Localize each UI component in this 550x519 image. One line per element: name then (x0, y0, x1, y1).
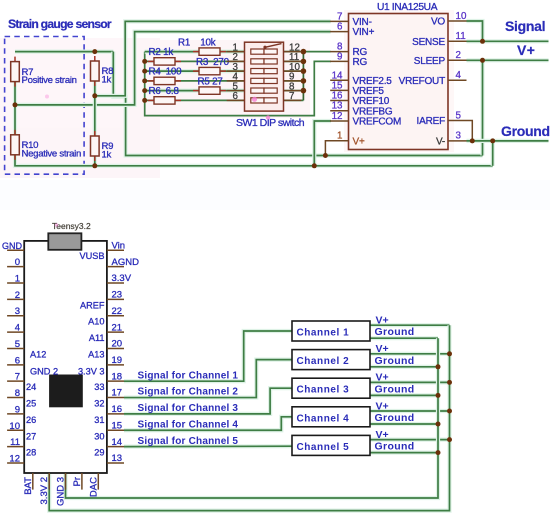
wire RG1 bus right vertical (302, 52, 304, 101)
svg-text:VIN+: VIN+ (353, 27, 375, 38)
wire VREFCOM to ground (314, 121, 331, 166)
pin 9 left (7, 413, 24, 415)
pin Vin right (107, 249, 124, 251)
wire R7 to R10 (13, 81, 17, 134)
svg-text:28: 28 (26, 448, 36, 458)
svg-text:31: 31 (94, 415, 104, 425)
svg-text:8: 8 (15, 388, 20, 399)
strain gauge sensor dashed box (5, 37, 85, 175)
pin 2 left (7, 298, 24, 300)
wire signal channel 5 (124, 444, 292, 449)
pin 12 left (7, 462, 24, 464)
svg-text:5: 5 (456, 110, 462, 121)
wire VIN+ from R7/R10 node (15, 32, 331, 105)
wire signal channel 4 (124, 417, 292, 430)
junction R9 bottom ground (92, 163, 97, 168)
svg-text:R3 270: R3 270 (196, 57, 230, 68)
svg-text:V+: V+ (517, 42, 535, 58)
svg-text:1: 1 (15, 274, 20, 285)
svg-text:V+: V+ (376, 315, 389, 327)
wire V+ vertical drop (480, 60, 484, 155)
svg-text:12: 12 (332, 111, 343, 122)
connector Channel 3 (292, 378, 370, 398)
svg-text:12: 12 (9, 453, 20, 464)
svg-text:GND: GND (2, 241, 23, 251)
wire rail 3 (145, 69, 245, 73)
wire rail 6 (145, 99, 245, 101)
svg-text:1k: 1k (102, 150, 112, 161)
junction resistor bus (142, 69, 147, 74)
pin 3 left (7, 315, 24, 317)
resistor R2 1k (148, 47, 181, 65)
svg-text:GND 2: GND 2 (30, 366, 58, 376)
svg-text:6: 6 (15, 355, 20, 366)
pin 2 SLEEP (448, 59, 467, 61)
pin 16 VREF10 (330, 100, 348, 102)
svg-text:SW1 DIP switch: SW1 DIP switch (236, 117, 305, 129)
junction DIP bus (301, 49, 307, 55)
pin 8 RG (330, 51, 348, 53)
pin GND 3 bottom (65, 473, 67, 490)
svg-text:VUSB: VUSB (79, 251, 104, 261)
wire VIN- from R8/R9 node (95, 21, 331, 95)
svg-text:4: 4 (15, 323, 20, 334)
wire DIP pin12 to RG pin 8 (284, 51, 331, 53)
wire rail 2 (145, 60, 245, 62)
pin 3.3V right (107, 282, 124, 284)
junction DIP bus (301, 68, 307, 74)
wire signal channel 1 (124, 331, 292, 381)
svg-text:V+: V+ (376, 400, 389, 412)
svg-text:V+: V+ (353, 136, 365, 147)
pin 9 RG (330, 60, 348, 62)
svg-text:17: 17 (112, 388, 123, 399)
junction resistor bus (142, 59, 147, 64)
svg-text:15: 15 (112, 420, 123, 431)
junction ground bus (436, 393, 441, 398)
junction resistor bus (142, 98, 147, 103)
svg-text:6: 6 (337, 22, 343, 33)
svg-text:V-: V- (436, 137, 445, 148)
pin 19 right (107, 364, 124, 366)
svg-text:U1 INA125UA: U1 INA125UA (377, 2, 438, 13)
svg-text:Ground: Ground (375, 326, 415, 338)
wire signal channel 3 (124, 388, 292, 414)
svg-text:Signal for Channel 4: Signal for Channel 4 (138, 419, 239, 430)
junction DIP bus (301, 59, 307, 65)
junction ground bus (436, 422, 441, 427)
svg-text:A10: A10 (88, 317, 104, 327)
wire ground rail riser (491, 141, 495, 166)
svg-text:3: 3 (456, 131, 462, 142)
wire channel 4 V+ (370, 409, 450, 413)
svg-text:10: 10 (456, 11, 467, 22)
svg-text:GND 3: GND 3 (56, 477, 67, 506)
pin 10 VO (448, 20, 467, 22)
wire channel 4 ground (370, 422, 438, 426)
wire DIP pin7 row (284, 99, 304, 101)
junction V+ bus (447, 437, 452, 442)
junction resistor bus (142, 88, 147, 93)
svg-text:BAT: BAT (23, 477, 34, 495)
pin 7 VIN- (330, 20, 348, 22)
svg-text:Vin: Vin (112, 241, 126, 252)
resistor R3 270 (193, 57, 230, 75)
svg-text:Channel 4: Channel 4 (297, 413, 350, 424)
svg-text:Channel 5: Channel 5 (297, 442, 350, 453)
wire bridge top rail R7-R8 (15, 49, 113, 53)
pin 1 V+ (330, 140, 348, 142)
pin 6 VIN+ (330, 31, 348, 33)
pin 3 V- (448, 140, 467, 142)
svg-text:A12: A12 (30, 349, 46, 359)
svg-text:0: 0 (15, 257, 20, 268)
wire rail 1 (145, 49, 245, 53)
junction resistor bus (142, 78, 147, 83)
switch SW1 DIP switch (227, 42, 302, 111)
svg-text:3.3V: 3.3V (112, 273, 132, 284)
svg-text:V+: V+ (376, 343, 389, 355)
svg-text:9: 9 (337, 51, 342, 62)
svg-text:2: 2 (456, 50, 461, 61)
svg-text:30: 30 (94, 431, 104, 441)
svg-text:DAC: DAC (88, 477, 99, 497)
pin 4 VREFOUT (448, 79, 467, 81)
svg-text:R1 10k: R1 10k (178, 37, 216, 48)
wire V+ line (467, 58, 549, 62)
junction pin1 V+ rail (323, 153, 328, 158)
svg-text:V+: V+ (376, 429, 389, 441)
resistor R1 10k (178, 37, 226, 55)
junction V+ line (480, 58, 485, 63)
resistor R8 1k (91, 56, 114, 86)
svg-text:10: 10 (9, 421, 20, 432)
pin 14 right (107, 446, 124, 448)
pin 1 left (7, 282, 24, 284)
svg-text:V+: V+ (376, 372, 389, 384)
svg-text:11: 11 (456, 31, 466, 42)
junction ground line (490, 138, 495, 143)
wire V+ pin1 to H155 (325, 141, 348, 156)
wire ground bus to GND pin (66, 338, 439, 498)
pin 7 left (7, 380, 24, 382)
svg-text:Channel 1: Channel 1 (297, 328, 350, 339)
pin 13 right (107, 462, 124, 464)
pin BAT bottom (32, 473, 34, 490)
resistor R9 1k (91, 131, 114, 161)
svg-text:4: 4 (456, 70, 462, 81)
junction V+ bus (447, 351, 452, 356)
wire IAREF drop (467, 121, 473, 141)
svg-text:R6 6.8: R6 6.8 (149, 86, 180, 97)
svg-text:Ground: Ground (375, 355, 415, 367)
svg-text:Signal for Channel 2: Signal for Channel 2 (138, 387, 239, 398)
svg-text:7: 7 (289, 91, 294, 102)
svg-text:Signal for Channel 5: Signal for Channel 5 (138, 436, 239, 447)
svg-text:Positive strain: Positive strain (22, 75, 77, 86)
svg-text:A13: A13 (88, 349, 104, 359)
svg-text:R5 27: R5 27 (198, 76, 223, 87)
svg-text:18: 18 (112, 371, 123, 382)
pin 15 right (107, 429, 124, 431)
resistor R10 negative strain (11, 130, 81, 160)
junction VO SENSE (480, 39, 485, 44)
svg-text:RG: RG (353, 57, 368, 68)
junction V+ bus (447, 409, 452, 414)
pin 20 right (107, 347, 124, 349)
svg-text:Channel 2: Channel 2 (297, 356, 350, 367)
pin GND left (7, 249, 24, 251)
wire channel 2 ground (370, 365, 438, 369)
connector Channel 5 (292, 435, 370, 455)
svg-text:A11: A11 (89, 333, 105, 343)
op-amp U1 INA125UA (330, 2, 467, 150)
junction V+ bus (447, 380, 452, 385)
svg-text:Pr: Pr (72, 477, 83, 487)
pin 8 left (7, 397, 24, 399)
pin AGND right (107, 266, 124, 268)
wire channel 1 V+ (370, 323, 450, 327)
junction ground bus (436, 450, 441, 455)
svg-text:3: 3 (15, 306, 20, 317)
resistor R4 100 (148, 67, 182, 85)
pin 16 right (107, 413, 124, 415)
junction IAREF V- (470, 138, 475, 143)
chip MK20 (49, 375, 83, 408)
svg-text:Signal for Channel 1: Signal for Channel 1 (138, 370, 239, 381)
pin 3.3V 2 bottom (48, 473, 50, 490)
pin 5 IAREF (448, 120, 467, 122)
wire VO to SENSE (467, 21, 483, 41)
wire channel 3 V+ (370, 380, 450, 384)
svg-text:29: 29 (94, 448, 104, 458)
svg-text:VREFOUT: VREFOUT (399, 76, 445, 87)
svg-text:32: 32 (94, 399, 104, 409)
junction ground bus (436, 364, 441, 369)
svg-text:Ground: Ground (501, 123, 550, 139)
wire Ground line (467, 139, 549, 143)
svg-text:Strain gauge sensor: Strain gauge sensor (8, 17, 112, 31)
wire R9 bottom to ground rail (93, 156, 97, 166)
svg-text:3.3V 2: 3.3V 2 (39, 477, 50, 504)
svg-text:13: 13 (112, 453, 123, 464)
wire channel 3 ground (370, 393, 438, 397)
svg-text:Negative strain: Negative strain (22, 148, 82, 159)
pin 17 right (107, 397, 124, 399)
connector Channel 1 (292, 321, 370, 341)
pin 0 left (7, 266, 24, 268)
svg-text:R4 100: R4 100 (149, 67, 183, 78)
svg-text:Ground: Ground (375, 441, 415, 453)
pin 6 left (7, 364, 24, 366)
svg-text:1k: 1k (102, 75, 112, 86)
wire RG2 bus to pin 9 (145, 52, 331, 116)
svg-text:2: 2 (15, 290, 20, 301)
wire bridge top to V+ rail H155 (113, 52, 482, 156)
resistor R5 27 (193, 76, 226, 94)
wire Signal line (467, 39, 549, 43)
wire channel 5 ground (370, 451, 438, 455)
svg-text:Channel 3: Channel 3 (297, 385, 350, 396)
USB connector (48, 233, 81, 250)
svg-text:Ground: Ground (375, 412, 415, 424)
svg-text:11: 11 (10, 437, 20, 448)
svg-text:16: 16 (112, 404, 123, 415)
pin 11 SENSE (448, 40, 467, 42)
svg-text:3.3V 3: 3.3V 3 (78, 366, 105, 376)
wire R8 to R9 (93, 81, 97, 136)
svg-text:Ground: Ground (375, 383, 415, 395)
svg-text:26: 26 (26, 415, 36, 425)
svg-text:Signal for Channel 3: Signal for Channel 3 (138, 403, 239, 414)
pin 11 left (7, 446, 24, 448)
svg-text:14: 14 (112, 437, 123, 448)
wire signal channel 2 (124, 360, 292, 398)
svg-text:33: 33 (94, 382, 104, 392)
svg-text:22: 22 (112, 306, 123, 317)
svg-text:AREF: AREF (80, 300, 105, 310)
wire channel 2 V+ (370, 352, 450, 356)
resistor R6 6.8 (148, 86, 181, 104)
junction R7/R10 VIN+ node (13, 102, 18, 107)
svg-text:21: 21 (112, 322, 123, 333)
pin 5 left (7, 347, 24, 349)
wire channel 5 V+ (370, 438, 450, 442)
svg-text:IAREF: IAREF (417, 116, 446, 127)
junction DIP bus (301, 78, 307, 84)
pin 21 right (107, 331, 124, 333)
svg-text:20: 20 (112, 339, 123, 350)
junction VREFCOM ground (312, 163, 317, 168)
wire rail 5 (145, 88, 245, 92)
junction R8/R9 VIN- node (92, 93, 97, 98)
wire V+ bus to 3.3V pin (49, 325, 449, 510)
junction DIP bus (301, 88, 307, 94)
pin 12 VREFCOM (330, 120, 348, 122)
junction R8 top bridge rail (92, 49, 97, 54)
svg-text:R2 1k: R2 1k (149, 47, 174, 58)
svg-text:VO: VO (431, 17, 445, 28)
svg-text:SLEEP: SLEEP (414, 56, 446, 67)
pin 10 left (7, 429, 24, 431)
svg-text:25: 25 (26, 399, 36, 409)
resistor R7 positive strain (11, 57, 77, 87)
pin 13 VREFBG (330, 110, 348, 112)
pin 18 right (107, 380, 124, 382)
wire rail 4 (145, 80, 245, 82)
svg-text:Signal: Signal (505, 18, 545, 34)
pin 4 left (7, 331, 24, 333)
wire channel 1 ground (370, 336, 438, 340)
pin 14 VREF2.5 (330, 79, 348, 81)
svg-text:19: 19 (112, 355, 123, 366)
pin 23 right (107, 298, 124, 300)
pin 15 VREF5 (330, 89, 348, 91)
svg-text:7: 7 (15, 372, 20, 383)
svg-text:24: 24 (26, 382, 36, 392)
microcontroller Teensy3.2 (2, 221, 139, 506)
svg-text:27: 27 (26, 431, 36, 441)
svg-text:9: 9 (15, 404, 20, 415)
svg-text:6: 6 (233, 91, 239, 102)
connector Channel 4 (292, 407, 370, 427)
connector Channel 2 (292, 350, 370, 370)
svg-text:AGND: AGND (112, 257, 140, 268)
pin DAC bottom (97, 473, 99, 490)
svg-text:VREFCOM: VREFCOM (353, 117, 402, 128)
svg-text:SENSE: SENSE (412, 37, 445, 48)
pin 22 right (107, 315, 124, 317)
svg-text:1: 1 (337, 131, 342, 142)
wire ground rail H166 from R10 (15, 155, 493, 166)
pin Pr bottom (81, 473, 83, 490)
svg-text:5: 5 (15, 339, 20, 350)
svg-text:23: 23 (112, 290, 123, 301)
